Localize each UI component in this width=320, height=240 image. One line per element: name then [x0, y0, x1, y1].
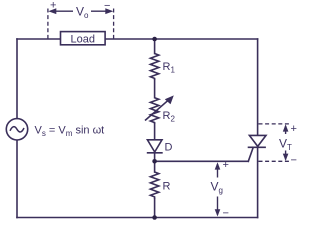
wire right segment upper (anode lead)	[257, 39, 259, 135]
resistor R	[150, 172, 158, 199]
Vg double arrow	[217, 164, 219, 215]
svg-text:−: −	[291, 155, 297, 167]
svg-text:VT: VT	[279, 137, 292, 153]
VT measurement dashed line bottom	[259, 160, 292, 162]
ac source Vs	[6, 119, 27, 140]
svg-text:Vs = Vm sin ωt: Vs = Vm sin ωt	[35, 125, 105, 139]
VT measurement dashed line top	[259, 123, 290, 125]
svg-text:+: +	[50, 0, 56, 12]
resistor R2 (variable)	[150, 98, 158, 124]
svg-text:Vo: Vo	[76, 5, 89, 21]
wire gate horizontal	[155, 160, 249, 162]
wire top-middle segment	[105, 38, 258, 40]
Vo arrow line with arrowheads	[50, 10, 112, 12]
wire R bottom lead	[154, 199, 156, 218]
wire right segment lower (cathode lead)	[257, 147, 259, 217]
svg-text:−: −	[223, 208, 229, 220]
svg-text:R: R	[163, 181, 171, 193]
svg-text:+: +	[223, 159, 229, 171]
wire left segment lower	[16, 140, 18, 218]
arrow of variable resistor R2	[145, 95, 174, 120]
svg-text:Load: Load	[71, 33, 95, 45]
svg-text:+: +	[291, 123, 297, 135]
node: junction dot bottom	[152, 215, 157, 220]
svg-text:Vg: Vg	[211, 180, 223, 196]
wire diode cathode to gate node	[154, 153, 156, 161]
thyristor (SCR)	[248, 135, 266, 147]
svg-text:D: D	[165, 142, 173, 154]
node: junction dot top	[152, 37, 157, 42]
svg-text:R2: R2	[163, 110, 176, 124]
svg-text:R1: R1	[163, 61, 176, 75]
Vo measurement dashed line right	[113, 9, 115, 39]
wire bottom segment	[17, 217, 258, 219]
resistor R1	[150, 54, 158, 81]
load box (Load)	[61, 32, 106, 46]
svg-text:−: −	[104, 0, 110, 12]
wire left segment upper	[16, 39, 18, 119]
diode D	[147, 140, 163, 153]
wire between R1 and R2	[154, 80, 156, 98]
wire middle branch top lead	[154, 39, 156, 54]
Vo measurement dashed line left	[47, 9, 49, 39]
wire top-left segment	[17, 38, 61, 40]
VT double arrow	[285, 126, 287, 160]
node: junction dot gate	[152, 159, 157, 164]
wire gate node to R	[154, 161, 156, 172]
wire between R2 and diode D	[154, 124, 156, 140]
wire gate diagonal into SCR	[248, 147, 253, 161]
